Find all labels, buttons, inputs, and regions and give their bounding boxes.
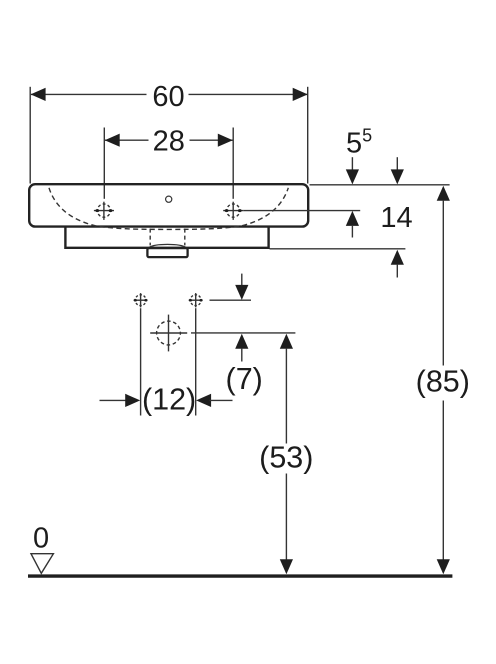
dim 7 upper arrowhead down [235,285,248,300]
fixing hole right tick east [199,299,202,302]
dim 5.5 upper arrow tail [351,157,353,171]
arrowhead 60 left [31,88,46,101]
tap hole right tick east [238,209,242,212]
tap hole left cross horizontal [94,210,114,212]
tap hole left cross vertical [103,202,105,220]
svg-text:(85): (85) [416,365,470,399]
drain recess dashed left edge [149,229,151,246]
fixing hole left cross vertical [140,293,142,307]
dim 85 line upper segment [442,200,444,366]
drain hole cross horizontal [150,332,187,334]
fixing hole right cross horizontal [189,299,203,301]
fixing hole left tick east [144,299,147,302]
dim 85 lower arrowhead down [437,559,450,574]
svg-text:14: 14 [380,202,412,234]
tap hole left tick east [109,209,113,212]
dim 53 line upper segment [285,348,287,444]
dimension line 60 right segment [189,93,308,95]
reference line drain level right [191,332,295,334]
washbasin apron outline [65,228,268,248]
svg-text:55: 55 [346,126,372,160]
tap hole right dashed circle [227,204,240,217]
floor line [28,574,452,577]
trap cover body [147,248,187,257]
extension line right of 28 dim [232,128,234,199]
reference line fixing holes level [210,299,252,301]
dim 14 lower arrowhead up [391,250,404,265]
dim 5.5 lower arrowhead up [346,211,359,226]
svg-text:(53): (53) [259,441,313,475]
extension line left of 28 dim [103,128,105,199]
basin bowl hidden contour (dashed) [49,188,288,230]
dim 14 upper arrow tail [396,157,398,171]
dim 53 upper arrowhead up [280,334,293,349]
extension line left of 60 dim [29,87,31,184]
svg-text:(12): (12) [142,383,196,417]
extension line right of 60 dim [307,87,309,184]
reference line apron bottom right [270,248,406,250]
fixing hole left tick west [134,299,137,302]
dim 14 upper arrowhead down [391,169,404,184]
dim 7 lower arrow tail [241,348,243,362]
tap hole left tick west [95,209,99,212]
svg-text:28: 28 [153,126,185,158]
dim 7 upper arrow tail [241,274,243,286]
drain hole dashed circle [157,321,181,345]
arrowhead 28 left [105,134,120,147]
dim 7 lower arrowhead up [235,334,248,349]
dim 12 right arrow tail [210,399,233,401]
arrowhead 28 right [218,134,233,147]
fixing hole right cross vertical [195,293,197,307]
svg-text:0: 0 [33,522,49,554]
dim 53 lower arrowhead down [280,559,293,574]
svg-text:60: 60 [152,81,184,113]
tap hole right tick west [225,209,229,212]
tap hole left dashed circle [97,204,110,217]
datum triangle [31,554,53,574]
dim 12 left arrow tail [100,399,128,401]
tap hole right cross horizontal [223,210,243,212]
arrowhead 60 right [293,88,308,101]
dim 5.5 upper arrowhead down [346,169,359,184]
trap cover dome [149,244,186,247]
dimension line 60 left segment [31,93,147,95]
dim 5.5 lower arrow tail [351,225,353,238]
overflow hole [166,196,172,202]
fixing hole left dashed circle [135,295,146,306]
fixing hole left cross horizontal [134,299,148,301]
extension line fixing hole left down [140,308,142,415]
dimension line 28 right segment [190,139,233,141]
washbasin body outline [29,184,308,226]
reference line tap level right [243,210,360,212]
dim 85 line lower segment [442,401,444,561]
fixing hole right dashed circle [190,295,201,306]
dim 53 line lower segment [285,474,287,561]
reference line basin top right [310,184,450,186]
svg-text:(7): (7) [226,362,263,396]
dim 85 upper arrowhead up [437,186,450,201]
drain hole cross vertical [168,315,170,352]
dim 12 left arrowhead right [125,394,140,407]
dim 12 right arrowhead left [196,394,211,407]
dimension line 28 left segment [105,139,149,141]
fixing hole right tick west [189,299,192,302]
tap hole right cross vertical [232,202,234,220]
extension line fixing hole right down [195,308,197,415]
dim 14 lower arrow tail [396,264,398,278]
drain recess dashed right edge [184,229,186,246]
